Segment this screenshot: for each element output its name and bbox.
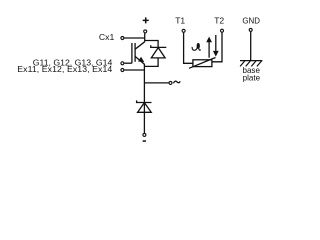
ground chassis line (240, 60, 262, 62)
thermistor down arrow (215, 35, 217, 51)
thermistor R1 body (193, 60, 212, 67)
terminal Cx1 circle (121, 37, 124, 40)
ground hatch (240, 61, 262, 67)
diode D2 cathode bar with tick (137, 100, 152, 102)
wire GND to base plate (250, 31, 252, 60)
transistor IGBT collector lead (135, 42, 145, 49)
terminal T2 circle (221, 29, 224, 32)
diode D2 triangle (138, 103, 152, 113)
transistor IGBT emitter arrow (138, 57, 144, 62)
diode D1 triangle (151, 48, 165, 58)
wire AC output branch (144, 82, 168, 84)
svg-text:T2: T2 (214, 16, 224, 26)
svg-text:Cx1: Cx1 (99, 32, 115, 42)
terminal Ex circle (121, 69, 124, 72)
wire Cx1 to collector rail (124, 37, 144, 39)
svg-text:plate: plate (243, 74, 261, 83)
terminal minus circle (143, 133, 146, 136)
transistor IGBT channel bar (134, 43, 136, 62)
wire collector to diode D1 branch (145, 41, 158, 48)
wire T2 to thermistor (212, 32, 222, 61)
wire emitter rail (143, 64, 145, 133)
diode D1 cathode bar with tick (151, 45, 167, 47)
thermistor R1 diagonal (189, 58, 216, 69)
terminal AC tilde label (174, 81, 181, 83)
svg-text:Ex11, Ex12, Ex13, Ex14: Ex11, Ex12, Ex13, Ex14 (17, 64, 112, 74)
terminal G circle (121, 62, 124, 65)
terminal minus label (143, 140, 146, 142)
terminal + circle (144, 30, 147, 33)
thermistor theta label (192, 44, 200, 51)
terminal AC circle (169, 81, 172, 84)
wire diode D1 anode to emitter rail (144, 58, 158, 67)
terminal GND circle (249, 28, 252, 31)
wire T1 to thermistor (184, 33, 193, 64)
terminal + label (143, 17, 149, 23)
wire gate lead (124, 62, 132, 64)
svg-text:T1: T1 (175, 16, 185, 26)
wire Ex to emitter rail (124, 69, 144, 71)
transistor IGBT emitter lead (135, 56, 144, 64)
thermistor up arrow (208, 42, 210, 58)
svg-text:GND: GND (242, 17, 260, 26)
terminal T1 circle (182, 29, 185, 32)
wire collector rail top (144, 33, 146, 42)
transistor IGBT gate bar (131, 43, 133, 63)
